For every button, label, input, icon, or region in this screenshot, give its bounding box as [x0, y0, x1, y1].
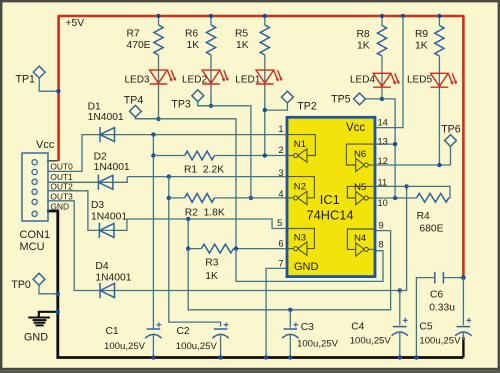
- svg-text:R3: R3: [205, 258, 218, 269]
- wire LED4 cathode to pin13/pin10: [382, 99, 395, 198]
- svg-text:R9: R9: [415, 29, 428, 40]
- resistor R8: [377, 26, 386, 57]
- node rail pin14: [401, 14, 405, 18]
- resistor R6: [206, 25, 215, 55]
- node C3 top: [288, 308, 292, 312]
- svg-text:OUT0: OUT0: [50, 162, 73, 172]
- resistor R4: [417, 193, 449, 202]
- op-amp N5 inverter: [347, 186, 375, 204]
- capacitor C1: [145, 322, 161, 338]
- svg-text:N5: N5: [354, 182, 366, 193]
- svg-text:12: 12: [378, 156, 388, 166]
- ground bus black: [47, 211, 463, 358]
- svg-text:CON1: CON1: [20, 229, 51, 241]
- svg-text:3: 3: [278, 168, 283, 178]
- test point TP5: [354, 93, 366, 105]
- test point TP6: [445, 135, 457, 147]
- svg-text:TP0: TP0: [11, 279, 31, 291]
- svg-text:470E: 470E: [127, 40, 151, 51]
- wire pin 12 to TP6: [375, 164, 451, 166]
- resistor R7: [154, 25, 163, 55]
- svg-text:GND: GND: [294, 261, 319, 273]
- wire pin 11: [375, 185, 407, 187]
- svg-text:C6: C6: [430, 289, 443, 300]
- svg-text:R2 1.8K: R2 1.8K: [185, 208, 225, 219]
- wire pin 14 to rail: [375, 16, 403, 128]
- wire R5/LED1 column: [264, 16, 266, 156]
- svg-text:TP5: TP5: [331, 93, 351, 105]
- node R3 top: [186, 217, 190, 221]
- node bus C4: [398, 355, 402, 359]
- node rail R9: [437, 14, 441, 18]
- wire TP5 to LED4: [365, 98, 382, 100]
- svg-text:Vcc: Vcc: [346, 122, 365, 134]
- svg-text:1K: 1K: [187, 40, 200, 51]
- wire pin 7 to ground: [266, 268, 287, 357]
- svg-text:N1: N1: [294, 139, 306, 150]
- svg-text:11: 11: [378, 177, 388, 187]
- svg-text:D1: D1: [88, 102, 101, 113]
- node bus pin7: [264, 355, 268, 359]
- node pin 10 / LED4 net: [393, 196, 397, 200]
- svg-text:LED4: LED4: [350, 74, 375, 85]
- svg-text:D3: D3: [91, 200, 104, 211]
- wire R4 feedback loop to pin 11: [407, 186, 450, 197]
- svg-text:9: 9: [379, 221, 384, 231]
- wire pin 6 (R3 to IC): [188, 248, 287, 250]
- svg-text:OUT2: OUT2: [50, 181, 73, 191]
- svg-text:8: 8: [379, 239, 384, 249]
- op-amp N3 inverter: [287, 229, 314, 256]
- node N2 input: [167, 174, 171, 178]
- wire pin 3 net: [127, 176, 287, 178]
- node LED2/TP3: [209, 104, 213, 108]
- CON1 pin circles: [32, 160, 37, 217]
- node LED4/TP5: [380, 97, 384, 101]
- svg-text:TP3: TP3: [171, 98, 191, 110]
- IC1 74HC14 body: [287, 117, 375, 276]
- svg-text:100u,25V: 100u,25V: [176, 341, 218, 352]
- node R1 left: [151, 153, 155, 157]
- wire pin 8 loop to pin 6: [236, 249, 383, 282]
- node pin6/pin8/LED3: [234, 246, 238, 250]
- wire pin 13: [375, 143, 395, 145]
- wire D2 anode jog to pin 3: [113, 177, 127, 183]
- ground symbol: [28, 312, 58, 326]
- node LED5 on pin 12: [437, 163, 441, 167]
- LED3: [150, 70, 176, 84]
- capacitor C4: [392, 318, 408, 336]
- svg-text:10: 10: [378, 198, 388, 208]
- node C4 top: [398, 288, 402, 292]
- svg-text:R8: R8: [357, 29, 370, 40]
- node rail R6: [209, 14, 213, 18]
- svg-text:N4: N4: [354, 233, 367, 244]
- svg-text:R1 2.2K: R1 2.2K: [184, 165, 224, 176]
- diode D4: [100, 283, 115, 298]
- wire C3 lower lead: [289, 335, 291, 358]
- wire D4 anode to pin 11 net: [115, 290, 400, 292]
- CON1 pin wires: [47, 171, 51, 200]
- svg-text:R6: R6: [185, 29, 198, 40]
- test point TP2: [282, 91, 294, 103]
- svg-text:GND: GND: [50, 201, 69, 211]
- svg-text:1N4001: 1N4001: [95, 272, 131, 283]
- wire OUT3 to D4: [47, 201, 115, 291]
- node C6/C5/+5V: [461, 275, 466, 280]
- wire D3 anode jog to pin 5: [114, 219, 127, 230]
- svg-text:1K: 1K: [236, 40, 249, 51]
- wire C1 lower lead: [152, 335, 154, 358]
- svg-text:TP6: TP6: [441, 123, 461, 135]
- wire OUT1 to D2: [47, 181, 113, 183]
- svg-text:2: 2: [278, 145, 283, 155]
- resistor R9: [435, 26, 444, 57]
- resistor R1: [185, 151, 215, 160]
- node bus C1: [151, 355, 155, 359]
- node LED2 net on pin4 wire: [249, 196, 253, 200]
- diode D1: [100, 127, 115, 142]
- svg-text:MCU: MCU: [20, 241, 45, 253]
- svg-text:100u,25V: 100u,25V: [104, 341, 146, 352]
- wire TP4: [135, 117, 158, 119]
- wire C3 riser: [289, 310, 291, 328]
- svg-text:C5: C5: [419, 322, 432, 333]
- capacitor C2: [212, 322, 228, 338]
- svg-text:IC1: IC1: [320, 192, 340, 207]
- svg-text:6: 6: [278, 239, 283, 249]
- wire OUT0 to D1: [47, 135, 115, 172]
- svg-text:N3: N3: [294, 232, 306, 243]
- svg-text:5: 5: [277, 218, 282, 228]
- svg-text:680E: 680E: [419, 224, 443, 235]
- wire LED2 net to pin 4: [198, 106, 251, 198]
- wire pin 2 (R1 right to IC): [153, 155, 287, 157]
- node rail R5: [263, 14, 267, 18]
- node TP0 junction: [56, 292, 60, 296]
- svg-text:1K: 1K: [357, 41, 370, 52]
- node R2 left: [167, 196, 171, 200]
- wire N1 input node riser to C1: [152, 135, 154, 329]
- wire TP0 to ground: [39, 285, 57, 294]
- svg-text:1N4001: 1N4001: [91, 212, 127, 223]
- wire C5 lower lead: [462, 332, 464, 340]
- svg-text:1: 1: [278, 124, 283, 134]
- wire R7/LED3 column: [158, 16, 160, 119]
- svg-text:D2: D2: [94, 152, 107, 163]
- connector CON1 body: [22, 153, 48, 221]
- capacitor C6: [435, 272, 444, 284]
- svg-text:1N4001: 1N4001: [94, 162, 130, 173]
- svg-text:LED2: LED2: [182, 74, 207, 85]
- wire R8/LED4 column: [381, 16, 383, 99]
- svg-text:1K: 1K: [415, 41, 428, 52]
- svg-text:TP1: TP1: [16, 74, 36, 86]
- wire pin 9: [375, 230, 391, 232]
- node bus C2: [218, 355, 222, 359]
- wire pin 10 to R4 left: [375, 197, 417, 199]
- svg-text:LED1: LED1: [235, 74, 260, 85]
- wire pin 4 (R2 to IC): [169, 197, 287, 199]
- node pin 11: [404, 184, 408, 188]
- node rail R8: [380, 14, 384, 18]
- wire LED3 net to pin 6: [135, 119, 236, 249]
- wire R6/LED2 column: [210, 16, 212, 106]
- node bus C6: [414, 355, 418, 359]
- test point TP0: [33, 273, 45, 285]
- LED4: [373, 73, 399, 87]
- wire N2 input riser to C2: [169, 177, 221, 327]
- node LED1 column on pin2: [263, 153, 267, 157]
- wire OUT2 to D3: [47, 191, 114, 231]
- node R3 left: [186, 246, 190, 250]
- svg-text:OUT3: OUT3: [50, 191, 73, 201]
- svg-text:14: 14: [378, 118, 388, 128]
- capacitor C3: [282, 322, 298, 338]
- svg-text:N2: N2: [294, 181, 306, 192]
- test point TP1: [33, 66, 45, 78]
- resistor R2: [185, 194, 215, 203]
- svg-text:4: 4: [278, 189, 283, 199]
- resistor R5: [260, 25, 269, 55]
- wire N3 input riser: [188, 219, 390, 310]
- svg-text:C1: C1: [106, 326, 119, 337]
- wire pin 1 net (D1 anode to IC): [115, 134, 288, 136]
- wire pin 11 riser from D4 net: [400, 186, 407, 290]
- wire pin 5 net: [127, 219, 287, 229]
- wire C2 lower lead: [220, 335, 222, 358]
- node pin 13: [393, 142, 397, 146]
- wire R9/LED5 column: [438, 16, 440, 165]
- node LED1/TP2: [263, 108, 267, 112]
- op-amp N6 inverter: [346, 144, 375, 172]
- svg-text:C4: C4: [351, 322, 364, 333]
- svg-text:Vcc: Vcc: [36, 139, 55, 151]
- wire TP6 riser: [450, 146, 452, 165]
- svg-text:0.33u: 0.33u: [429, 303, 455, 314]
- svg-text:100u,25V: 100u,25V: [350, 335, 392, 346]
- svg-text:7: 7: [278, 258, 283, 268]
- svg-text:LED3: LED3: [125, 74, 150, 85]
- svg-text:R5: R5: [235, 29, 248, 40]
- svg-text:1K: 1K: [205, 271, 218, 282]
- LED2: [202, 70, 228, 84]
- wire C4 lower lead: [399, 332, 401, 357]
- svg-text:LED5: LED5: [407, 74, 432, 85]
- wire C6 right lead: [443, 277, 463, 279]
- svg-text:R4: R4: [417, 211, 430, 222]
- wire C4 riser: [399, 291, 401, 326]
- test point TP4: [130, 105, 142, 117]
- svg-text:C3: C3: [301, 322, 314, 333]
- diode D2: [98, 175, 113, 190]
- svg-text:TP2: TP2: [297, 101, 317, 113]
- node rail R7: [156, 14, 160, 18]
- test point TP3: [192, 90, 204, 102]
- svg-text:74HC14: 74HC14: [307, 207, 354, 222]
- svg-text:TP4: TP4: [124, 94, 144, 106]
- node D1/N1 input: [151, 132, 155, 136]
- node bus C3: [288, 355, 292, 359]
- svg-text:+5V: +5V: [66, 18, 85, 29]
- node LED3/TP4: [156, 117, 160, 121]
- node TP1 junction on +5V: [56, 89, 60, 93]
- svg-text:R7: R7: [127, 29, 140, 40]
- op-amp N2 inverter: [287, 177, 314, 205]
- svg-text:N6: N6: [354, 149, 366, 160]
- svg-text:D4: D4: [95, 261, 108, 272]
- wire TP3: [198, 102, 211, 106]
- LED5: [431, 73, 457, 87]
- LED1: [256, 70, 282, 84]
- svg-text:OUT1: OUT1: [50, 172, 73, 182]
- svg-text:1N4001: 1N4001: [88, 112, 124, 123]
- wire TP1 to +5V: [39, 78, 57, 91]
- svg-text:100u,25V: 100u,25V: [419, 335, 461, 346]
- diode D3: [99, 223, 114, 238]
- wire C5 lower lead black: [462, 337, 464, 358]
- wire Vcc connector link: [47, 160, 58, 162]
- op-amp N4 inverter: [347, 229, 375, 256]
- wire TP2: [265, 103, 288, 110]
- +5V red rail: [59, 16, 464, 278]
- svg-text:13: 13: [378, 137, 388, 147]
- node GND symbol junction: [56, 310, 60, 314]
- wire C5 riser: [462, 278, 464, 326]
- svg-text:C2: C2: [177, 326, 190, 337]
- capacitor C5: [455, 318, 471, 336]
- svg-text:100u,25V: 100u,25V: [297, 338, 339, 349]
- resistor R3: [201, 244, 233, 253]
- op-amp N1 inverter: [287, 135, 315, 163]
- wire C6 left lead: [416, 278, 434, 358]
- svg-text:GND: GND: [24, 332, 48, 344]
